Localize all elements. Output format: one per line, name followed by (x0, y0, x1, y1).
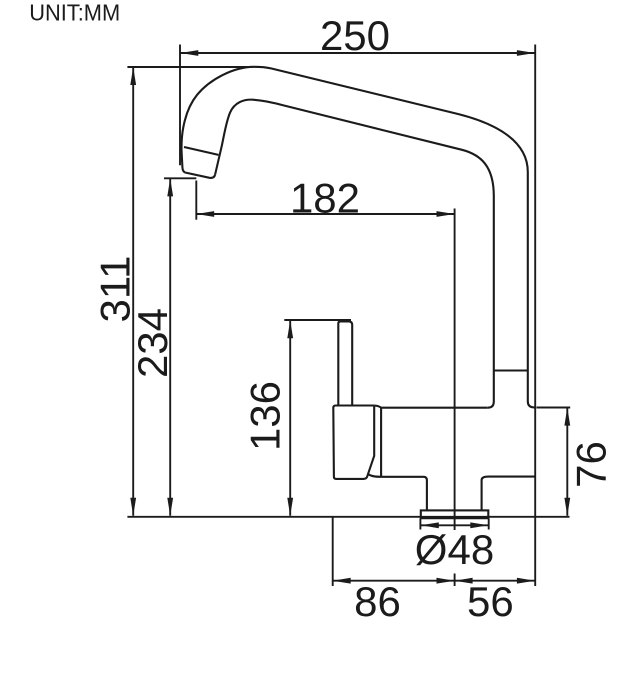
handle housing (333, 406, 374, 479)
arrow d48 left (421, 522, 439, 528)
housing-to-body bottom fillet (368, 474, 381, 477)
body top edge (374, 406, 488, 408)
base flange plate (421, 510, 489, 518)
ext d48 right stub (488, 519, 490, 530)
ext 136 top (284, 319, 351, 321)
body bottom left + shank left (381, 477, 427, 511)
ext 311 top (127, 66, 251, 68)
dim 234 line (169, 178, 171, 515)
ext d48 left stub (419, 519, 421, 530)
arrow 136 up (287, 320, 293, 338)
arrow 56 right (517, 578, 535, 584)
tube joint line at riser (494, 369, 528, 371)
arrow 56 left mid (455, 578, 473, 584)
arrow 234 down (167, 498, 173, 516)
svg-text:86: 86 (354, 578, 401, 625)
svg-text:76: 76 (567, 441, 614, 488)
svg-text:234: 234 (129, 308, 176, 378)
arrow 234 up (167, 178, 173, 196)
spout outer edge (182, 67, 536, 408)
ext 182 left (195, 181, 197, 220)
arrow 250 left (180, 50, 198, 56)
arrow 250 right (517, 50, 535, 56)
ext line left of 250 (179, 45, 181, 166)
svg-text:56: 56 (467, 578, 514, 625)
svg-text:136: 136 (242, 381, 289, 451)
body left edge (380, 408, 382, 477)
arrow 182 left (196, 211, 214, 217)
arrow d48 right (470, 522, 488, 528)
arrow 86 right mid (437, 578, 455, 584)
svg-text:UNIT:MM: UNIT:MM (29, 0, 120, 26)
dim 86-56 line (333, 580, 535, 582)
dim 136 line (289, 320, 291, 516)
svg-text:182: 182 (290, 175, 360, 222)
arrow 86 left (333, 578, 351, 584)
arrow 136 down (287, 498, 293, 516)
ext 76 top (537, 407, 571, 409)
dim 76 line (566, 408, 568, 516)
aerator tip bottom (186, 173, 216, 178)
arm bottom right + shank right (482, 477, 536, 511)
center ext line lower (454, 574, 456, 587)
arrow 76 up (564, 408, 570, 426)
dim 311 line (132, 67, 134, 516)
svg-text:250: 250 (320, 12, 390, 59)
arrow 76 down (564, 498, 570, 516)
arrow 311 up (130, 67, 136, 85)
svg-text:Ø48: Ø48 (415, 526, 494, 573)
dim diameter48 line (421, 524, 489, 526)
dim 250 line (180, 52, 535, 54)
deck baseline (127, 516, 569, 518)
arrow 311 down (130, 498, 136, 516)
center ext line upper (454, 209, 456, 531)
spout inner edge (215, 100, 494, 408)
aerator joint line (184, 147, 219, 155)
ext line right 250/76/56 (534, 45, 536, 587)
ext 86 left (332, 517, 334, 586)
ext 234 top (164, 177, 196, 179)
arrow 182 right (437, 211, 455, 217)
handle lever (338, 321, 352, 405)
dim 182 line (196, 213, 454, 215)
